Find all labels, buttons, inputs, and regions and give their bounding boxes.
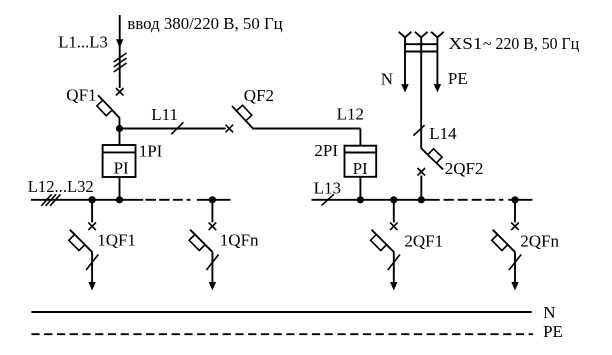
svg-text:1QFn: 1QFn <box>220 231 259 250</box>
svg-text:L1...L3: L1...L3 <box>58 33 108 52</box>
svg-text:2QF1: 2QF1 <box>404 231 443 250</box>
svg-text:PI: PI <box>353 159 368 178</box>
svg-text:~ 220 В, 50 Гц: ~ 220 В, 50 Гц <box>483 34 579 53</box>
svg-text:L12: L12 <box>337 104 364 123</box>
svg-text:2QFn: 2QFn <box>520 231 559 250</box>
svg-text:PE: PE <box>448 69 468 88</box>
svg-text:QF1: QF1 <box>66 86 96 105</box>
svg-text:L13: L13 <box>314 179 341 198</box>
svg-text:1PI: 1PI <box>139 141 163 160</box>
svg-text:L11: L11 <box>151 105 178 124</box>
svg-text:ввод 380/220 В, 50 Гц: ввод 380/220 В, 50 Гц <box>127 14 282 33</box>
svg-text:2QF2: 2QF2 <box>445 159 484 178</box>
svg-text:1QF1: 1QF1 <box>97 230 136 249</box>
svg-text:XS1: XS1 <box>448 34 482 53</box>
svg-text:PE: PE <box>543 322 563 341</box>
svg-text:N: N <box>543 303 555 322</box>
svg-text:QF2: QF2 <box>244 86 274 105</box>
svg-text:N: N <box>381 70 393 89</box>
svg-text:L14: L14 <box>429 124 457 143</box>
svg-text:2PI: 2PI <box>314 141 338 160</box>
svg-text:PI: PI <box>114 159 129 178</box>
svg-text:L12...L32: L12...L32 <box>28 177 94 196</box>
